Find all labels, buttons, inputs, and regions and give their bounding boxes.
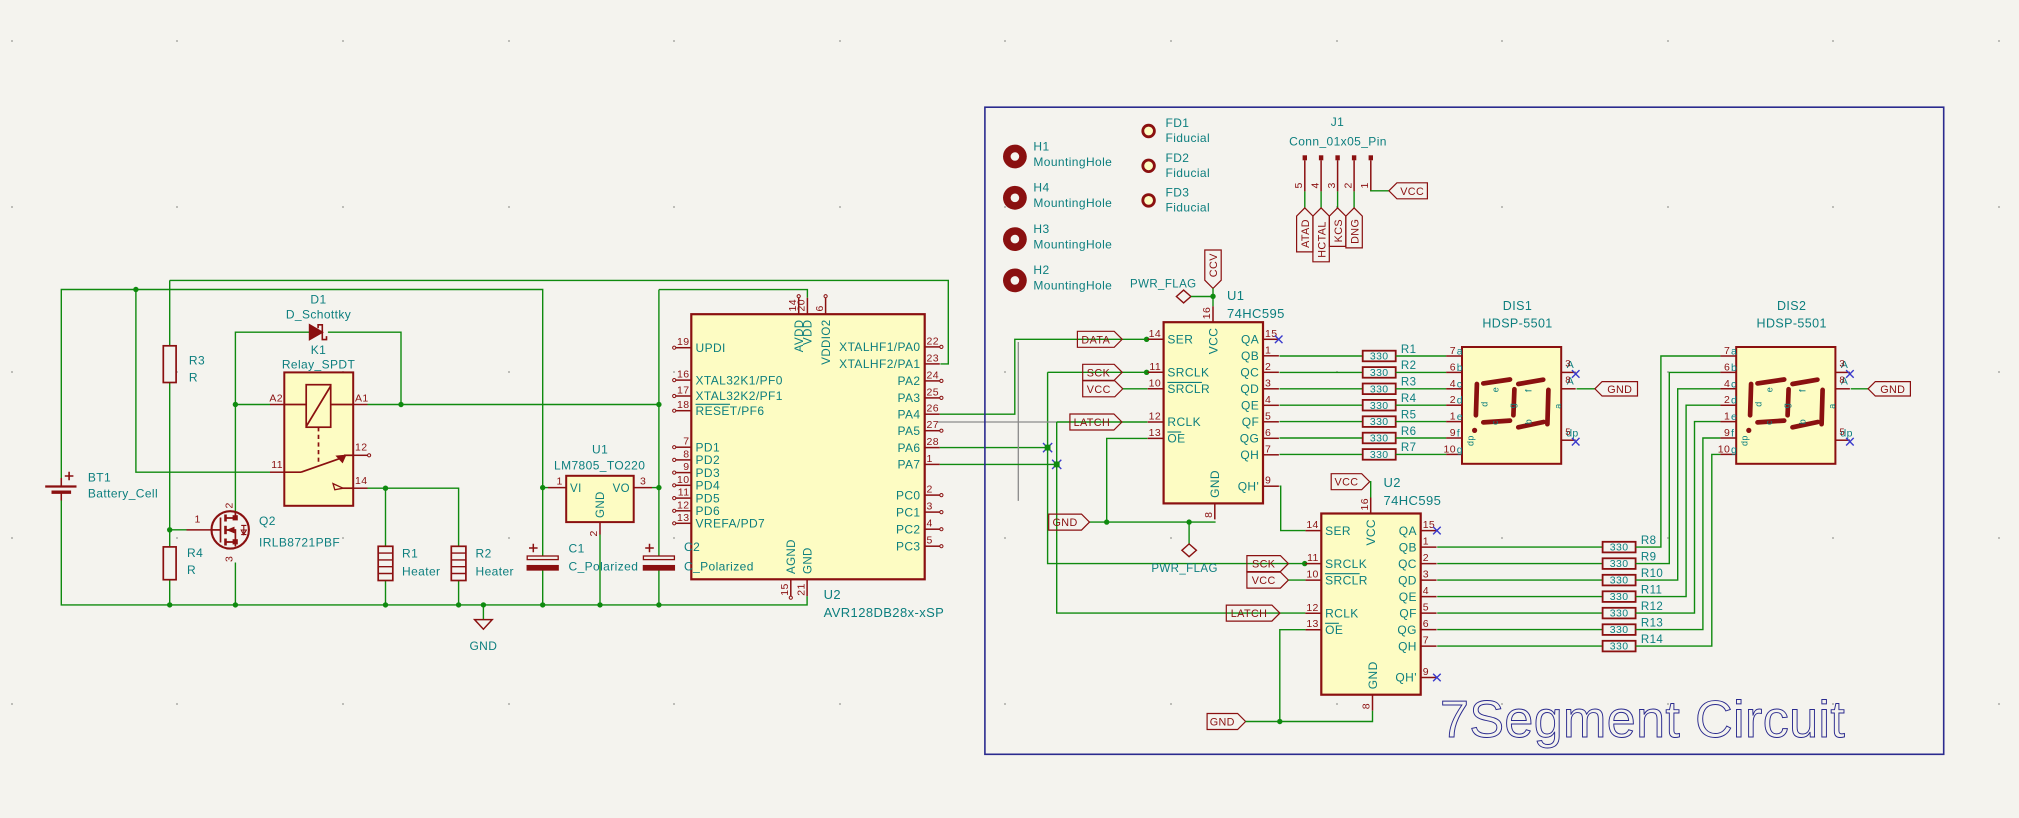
U2 pin 13 VREFA/PD7 — [676, 522, 692, 524]
U2 pin 11 PD5 — [676, 497, 692, 499]
svg-text:12: 12 — [1149, 411, 1161, 423]
U2 pin 8 GND — [1372, 695, 1374, 711]
svg-text:2: 2 — [588, 530, 600, 536]
gray line horizontal — [938, 421, 1057, 423]
svg-text:PA6: PA6 — [898, 441, 921, 455]
svg-text:f: f — [1524, 389, 1534, 392]
junction — [540, 485, 545, 490]
U2 pin 10 SRCLR — [1305, 579, 1321, 581]
mounting hole H1 — [1003, 145, 1027, 169]
DIS1 pin 9 f — [1446, 437, 1462, 439]
svg-text:SRCLR: SRCLR — [1325, 573, 1368, 587]
svg-text:4: 4 — [1423, 585, 1429, 597]
DIS1 decimal point — [1472, 428, 1477, 433]
U1 pin 3 VO — [634, 487, 652, 489]
svg-text:27: 27 — [927, 419, 939, 431]
svg-text:XTAL32K1/PF0: XTAL32K1/PF0 — [696, 373, 783, 387]
wire R1 to DIS1 — [1396, 355, 1447, 357]
svg-text:R11: R11 — [1641, 584, 1662, 596]
junction — [1302, 561, 1307, 566]
DIS2 pin 10 g — [1720, 453, 1736, 455]
J1 pin 1 — [1369, 155, 1373, 160]
svg-text:QC: QC — [1240, 366, 1259, 380]
svg-text:QD: QD — [1240, 382, 1259, 396]
U2 pin 22 XTALHF1/PA0 — [925, 346, 940, 348]
svg-text:QF: QF — [1399, 606, 1416, 620]
wire A2 pin — [235, 404, 270, 406]
wire R4 to DIS1 — [1396, 404, 1447, 406]
resistor R4 330 — [1363, 400, 1396, 411]
svg-text:6: 6 — [1450, 361, 1456, 373]
svg-text:330: 330 — [1370, 367, 1389, 379]
svg-text:3: 3 — [1326, 182, 1338, 188]
wire R9 riser to DIS2 — [1636, 372, 1721, 563]
svg-text:3: 3 — [223, 556, 235, 562]
svg-text:GND: GND — [1052, 517, 1077, 529]
resistor R10 330 — [1603, 575, 1636, 586]
svg-text:LM7805_TO220: LM7805_TO220 — [554, 459, 645, 473]
svg-text:FD1: FD1 — [1166, 116, 1190, 130]
svg-text:a: a — [1827, 403, 1837, 408]
svg-text:7: 7 — [683, 436, 689, 448]
resistor R6 330 — [1363, 433, 1396, 444]
U1 pin 4 QE — [1263, 404, 1279, 406]
svg-text:PWR_FLAG: PWR_FLAG — [1151, 563, 1217, 575]
svg-text:7: 7 — [1450, 345, 1456, 357]
svg-text:IRLB8721PBF: IRLB8721PBF — [259, 536, 340, 550]
svg-text:DATA: DATA — [1081, 334, 1110, 346]
DIS2 pin 2 d — [1720, 404, 1736, 406]
U2 pin 11 SRCLK — [1305, 563, 1321, 565]
wire J1 pin1 to VCC label — [1371, 190, 1389, 193]
ground symbol GND — [482, 605, 484, 620]
svg-text:SER: SER — [1325, 524, 1351, 538]
svg-text:VI: VI — [570, 483, 582, 495]
svg-text:GND: GND — [1607, 384, 1632, 396]
junction — [1104, 519, 1109, 524]
junction — [133, 287, 138, 292]
DIS1 segments — [1476, 380, 1549, 428]
fiducial FD3 — [1143, 195, 1155, 207]
svg-text:a: a — [1731, 346, 1737, 358]
junction — [383, 602, 388, 607]
wire R13 riser to DIS2 — [1636, 438, 1721, 630]
svg-text:PC3: PC3 — [896, 539, 921, 553]
svg-text:8: 8 — [1565, 375, 1571, 386]
U2 pin 13 OE — [1305, 629, 1321, 631]
wire D1 anode down to Q2 drain — [235, 332, 309, 497]
svg-text:J1: J1 — [1331, 115, 1344, 129]
svg-text:MountingHole: MountingHole — [1033, 155, 1112, 169]
DIS2 pin 4 c — [1720, 388, 1736, 390]
wire relay pin14 to heaters — [368, 488, 459, 546]
svg-text:7: 7 — [1423, 635, 1429, 647]
junction X PA6 — [1043, 443, 1052, 452]
svg-text:BT1: BT1 — [88, 471, 111, 485]
mounting hole H4 — [1003, 186, 1027, 210]
svg-text:Heater: Heater — [476, 565, 514, 579]
svg-text:R2: R2 — [476, 547, 492, 561]
svg-text:RCLK: RCLK — [1167, 415, 1201, 429]
U1 pin 15 QA — [1263, 338, 1279, 340]
mounting hole H3 — [1003, 227, 1027, 251]
svg-text:9: 9 — [1450, 427, 1456, 439]
label VCC for J1 — [1389, 183, 1428, 199]
svg-text:4: 4 — [1265, 394, 1271, 406]
mounting hole H2 — [1003, 269, 1027, 293]
wire A1 to C2 vertical — [368, 404, 659, 406]
svg-text:25: 25 — [927, 386, 939, 398]
svg-text:16: 16 — [1359, 498, 1371, 510]
display DIS2 HDSP-5501 — [1736, 347, 1835, 464]
wire U2 output row 14 — [1437, 645, 1602, 647]
svg-text:Relay_SPDT: Relay_SPDT — [282, 358, 356, 372]
wire VCC to SRCLR1 — [1123, 388, 1148, 390]
wire QB..QH row 2 — [1280, 371, 1363, 373]
svg-text:f: f — [1731, 428, 1734, 440]
resistor R3 330 — [1363, 384, 1396, 395]
svg-text:22: 22 — [927, 335, 939, 347]
svg-text:21: 21 — [795, 583, 807, 595]
svg-text:1: 1 — [1450, 411, 1456, 423]
svg-text:AGND: AGND — [786, 539, 798, 574]
svg-text:QA: QA — [1241, 333, 1259, 347]
wire VCC to SRCLR2 — [1288, 579, 1305, 581]
svg-text:7: 7 — [1265, 443, 1271, 455]
svg-text:SCK: SCK — [1252, 559, 1276, 571]
battery BT1 — [45, 472, 76, 493]
wire ground rail — [61, 493, 807, 605]
label LATCH vertical — [1313, 208, 1329, 262]
svg-text:R4: R4 — [1401, 393, 1417, 405]
wire C2 bottom — [658, 570, 660, 605]
svg-text:6: 6 — [1423, 618, 1429, 630]
svg-text:d: d — [1457, 395, 1463, 407]
svg-text:24: 24 — [927, 369, 939, 381]
svg-text:9: 9 — [1724, 427, 1730, 439]
svg-text:28: 28 — [927, 436, 939, 448]
svg-text:DIS2: DIS2 — [1777, 299, 1806, 313]
svg-text:MountingHole: MountingHole — [1033, 279, 1112, 293]
svg-text:QC: QC — [1398, 557, 1417, 571]
wire GND to U1 pin8 — [1090, 521, 1216, 523]
relay pin 11 — [270, 471, 284, 473]
svg-text:QB: QB — [1241, 349, 1259, 363]
svg-text:330: 330 — [1610, 542, 1629, 554]
shift register U1 74HC595 — [1164, 322, 1263, 503]
U2 pin 15 QA — [1421, 530, 1437, 532]
label GND OE1 — [1049, 514, 1090, 530]
wire J1 pin4 to LATCH label — [1320, 191, 1322, 208]
U2 pin 17 XTAL32K2/PF1 — [676, 395, 692, 397]
svg-text:11: 11 — [678, 487, 690, 499]
label DATA — [1077, 331, 1122, 347]
svg-text:g: g — [1457, 444, 1463, 456]
svg-text:dp: dp — [1740, 435, 1750, 446]
svg-text:c: c — [1490, 420, 1500, 425]
svg-text:R: R — [187, 563, 196, 577]
svg-text:d: d — [1731, 395, 1737, 407]
svg-text:9: 9 — [1265, 475, 1271, 487]
U2 pin 12 PD6 — [676, 510, 692, 512]
U2 pin 12 RCLK — [1305, 612, 1321, 614]
U1 pin 16 VCC — [1212, 306, 1214, 322]
svg-text:GND: GND — [469, 639, 497, 653]
svg-text:8: 8 — [683, 448, 689, 460]
svg-text:3: 3 — [1839, 358, 1845, 369]
label VCC to SRCLR1 — [1083, 381, 1123, 397]
svg-text:17: 17 — [677, 385, 689, 397]
wire R5 to DIS1 — [1396, 421, 1447, 423]
U2 pin 20 VDD — [806, 298, 808, 314]
svg-text:PC0: PC0 — [896, 488, 921, 502]
DIS1 pin 7 a — [1446, 355, 1462, 357]
svg-text:U1: U1 — [592, 443, 608, 457]
label GND vertical — [1346, 208, 1362, 248]
svg-text:e: e — [1491, 387, 1501, 392]
svg-text:GND: GND — [1208, 470, 1222, 498]
DIS2 pin 9 f — [1720, 437, 1736, 439]
wire QB..QH row 7 — [1280, 453, 1363, 455]
relay K1 Relay_SPDT — [284, 372, 353, 505]
wire R1 top — [385, 488, 387, 546]
resistor R4 — [163, 547, 176, 580]
wire upper rail R3 to AVR PA1 — [170, 280, 949, 364]
svg-text:g: g — [1731, 444, 1737, 456]
svg-text:Q2: Q2 — [259, 514, 276, 528]
U2 pin 2 QC — [1421, 563, 1437, 565]
no-connect X U2 QH' — [1433, 674, 1441, 682]
J1 pin 3 — [1335, 155, 1339, 160]
svg-text:3: 3 — [927, 501, 933, 513]
fiducial FD1 — [1143, 125, 1155, 137]
svg-text:PA2: PA2 — [898, 374, 921, 388]
svg-text:VCC: VCC — [1087, 384, 1111, 396]
svg-text:RESET/PF6: RESET/PF6 — [696, 404, 765, 418]
svg-text:PA3: PA3 — [898, 391, 921, 405]
svg-text:XTALHF2/PA1: XTALHF2/PA1 — [839, 357, 920, 371]
label GND DIS2 — [1868, 382, 1910, 396]
wire PA6 into SCK net — [940, 447, 1048, 449]
svg-text:4: 4 — [1450, 378, 1456, 390]
svg-text:20: 20 — [796, 299, 808, 311]
PWR_FLAG 1 — [1176, 290, 1191, 303]
svg-text:QE: QE — [1241, 399, 1259, 413]
wire PA7 into LATCH net — [940, 463, 1057, 465]
svg-text:1: 1 — [927, 453, 933, 465]
svg-text:6: 6 — [814, 305, 826, 311]
svg-text:11: 11 — [271, 459, 283, 471]
svg-text:16: 16 — [1201, 307, 1213, 319]
U2 pin 6 QG — [1421, 629, 1437, 631]
svg-text:VCC: VCC — [1364, 519, 1378, 546]
svg-text:LATCH: LATCH — [1074, 417, 1111, 429]
wire R8 riser to DIS2 — [1636, 356, 1721, 547]
junction — [383, 486, 388, 491]
svg-text:C2: C2 — [684, 540, 700, 554]
svg-text:26: 26 — [927, 403, 939, 415]
svg-text:f: f — [1798, 389, 1808, 392]
DIS2 pin 8 A — [1835, 388, 1850, 390]
resistor R14 330 — [1603, 641, 1636, 652]
U1 pin 13 OE — [1148, 437, 1164, 439]
svg-text:R1: R1 — [1401, 344, 1417, 356]
svg-text:XTALHF1/PA0: XTALHF1/PA0 — [839, 340, 920, 354]
svg-text:5: 5 — [1565, 427, 1571, 438]
U2 pin 7 QH — [1421, 645, 1437, 647]
svg-text:QH: QH — [1398, 639, 1417, 653]
svg-text:GND: GND — [1210, 717, 1235, 729]
svg-text:b: b — [1798, 419, 1808, 424]
svg-text:Battery_Cell: Battery_Cell — [88, 487, 158, 501]
svg-text:330: 330 — [1370, 416, 1389, 428]
svg-text:UPDI: UPDI — [696, 341, 726, 355]
wire J1 pin3 to SCK label — [1337, 191, 1339, 208]
label SCK upper — [1083, 364, 1123, 380]
svg-text:12: 12 — [355, 442, 367, 454]
svg-text:b: b — [1457, 362, 1463, 374]
svg-text:Fiducial: Fiducial — [1166, 131, 1211, 145]
U1 pin 3 QD — [1263, 388, 1279, 390]
label VCC above U1hc — [1205, 250, 1221, 288]
display DIS1 HDSP-5501 — [1462, 347, 1561, 464]
svg-text:15: 15 — [779, 583, 791, 595]
wire QH'1 to SER2 — [1280, 486, 1306, 530]
Q2 gate pin — [187, 529, 212, 531]
svg-text:330: 330 — [1610, 641, 1629, 653]
wire Q2 source down — [234, 563, 236, 605]
svg-text:1: 1 — [1724, 411, 1730, 423]
U2 pin 25 PA3 — [925, 397, 940, 399]
U2 pin 8 PD2 — [676, 459, 692, 461]
wire D1 cathode to A1 net — [328, 332, 401, 404]
wire QB..QH row 1 — [1280, 355, 1363, 357]
U2 pin 6 VDDIO2 — [825, 298, 827, 314]
svg-text:19: 19 — [677, 336, 689, 348]
svg-text:VCC: VCC — [1335, 477, 1359, 489]
resistor R2 330 — [1363, 367, 1396, 378]
U2 pin 23 XTALHF2/PA1 — [925, 363, 940, 365]
svg-text:16: 16 — [677, 369, 689, 381]
svg-text:4: 4 — [1724, 378, 1730, 390]
svg-text:VCC: VCC — [1206, 328, 1220, 355]
label VCC to SRCLR2 — [1247, 572, 1289, 588]
wire R10 riser to DIS2 — [1636, 389, 1721, 580]
wire LATCH vertical — [1057, 422, 1306, 613]
svg-text:H2: H2 — [1033, 263, 1049, 277]
svg-text:QD: QD — [1398, 573, 1417, 587]
svg-text:14: 14 — [355, 475, 367, 487]
svg-text:e: e — [1731, 411, 1737, 423]
svg-text:SRCLK: SRCLK — [1167, 366, 1209, 380]
svg-text:g: g — [1782, 403, 1792, 408]
U2 pin 27 PA5 — [925, 430, 940, 432]
junction — [481, 602, 486, 607]
svg-text:5: 5 — [1293, 182, 1305, 188]
U2 pin 26 PA4 — [925, 413, 940, 415]
svg-text:U1: U1 — [1227, 288, 1244, 303]
svg-text:R14: R14 — [1641, 634, 1664, 646]
svg-text:MountingHole: MountingHole — [1033, 237, 1112, 251]
svg-text:2: 2 — [1265, 361, 1271, 373]
gray line vertical — [1017, 342, 1019, 501]
wire U2 output row 13 — [1437, 629, 1602, 631]
wire DIS1 A to GND — [1577, 388, 1595, 390]
svg-text:VREFA/PD7: VREFA/PD7 — [696, 517, 766, 531]
battery BT1 pin stubs — [60, 478, 62, 486]
U1 pin 6 QG — [1263, 437, 1279, 439]
junction — [1144, 337, 1149, 342]
svg-text:11: 11 — [1307, 552, 1319, 564]
relay pin 12 — [353, 454, 367, 456]
wire LATCH net to RCLK — [1057, 421, 1148, 423]
svg-text:5: 5 — [1265, 410, 1271, 422]
wire QB..QH row 4 — [1280, 404, 1363, 406]
svg-text:GND: GND — [1366, 661, 1380, 689]
svg-text:9: 9 — [683, 461, 689, 473]
U1 pin 11 SRCLK — [1148, 371, 1164, 373]
DIS1 pin 10 g — [1446, 453, 1462, 455]
wire PA4 to DATA net — [940, 339, 1148, 414]
U2 pin 2 PC0 — [925, 494, 940, 496]
wire QB..QH row 5 — [1280, 421, 1363, 423]
svg-text:D1: D1 — [310, 293, 326, 307]
capacitor C1 C_Polarized — [527, 544, 558, 570]
svg-text:1: 1 — [1265, 344, 1271, 356]
svg-text:74HC595: 74HC595 — [1227, 306, 1285, 321]
DIS2 pin 1 e — [1720, 421, 1736, 423]
svg-text:QF: QF — [1242, 415, 1259, 429]
svg-text:330: 330 — [1370, 449, 1389, 461]
svg-text:3: 3 — [640, 476, 646, 488]
U2 pin 28 PA6 — [925, 447, 940, 449]
svg-text:13: 13 — [677, 512, 689, 524]
DIS2 pin 3 A — [1835, 371, 1850, 373]
DIS1 pin 8 A — [1561, 388, 1576, 390]
svg-text:e: e — [1765, 387, 1775, 392]
svg-text:5: 5 — [1839, 427, 1845, 438]
wire OE1 to GND — [1107, 438, 1148, 522]
svg-text:330: 330 — [1610, 624, 1629, 636]
junction — [398, 402, 403, 407]
svg-text:K1: K1 — [311, 343, 326, 357]
svg-text:23: 23 — [927, 352, 939, 364]
junction — [1144, 370, 1149, 375]
svg-text:GND: GND — [802, 547, 814, 574]
svg-text:2: 2 — [927, 484, 933, 496]
junction — [167, 602, 172, 607]
wire OE2 to GND — [1280, 630, 1306, 722]
svg-text:8: 8 — [1203, 512, 1215, 518]
DIS1 pin 2 d — [1446, 404, 1462, 406]
svg-text:VCC: VCC — [1252, 575, 1276, 587]
U1 pin 14 SER — [1148, 338, 1164, 340]
svg-text:12: 12 — [677, 499, 689, 511]
wire U2 output row 9 — [1437, 563, 1602, 565]
svg-text:U2: U2 — [1384, 475, 1401, 490]
svg-text:1: 1 — [1359, 182, 1371, 188]
svg-text:11: 11 — [1149, 361, 1161, 373]
U2 pin 15 AGND — [790, 579, 792, 596]
U1 pin 2 QC — [1263, 371, 1279, 373]
svg-text:XTAL32K2/PF1: XTAL32K2/PF1 — [696, 389, 783, 403]
junction — [233, 402, 238, 407]
wire PWR_FLAG2 stem — [1188, 522, 1190, 545]
wire R4 bottom — [169, 580, 171, 605]
svg-text:LATCH: LATCH — [1231, 608, 1268, 620]
wire DIS2 A to GND — [1851, 388, 1868, 390]
wire VI input — [543, 487, 548, 489]
